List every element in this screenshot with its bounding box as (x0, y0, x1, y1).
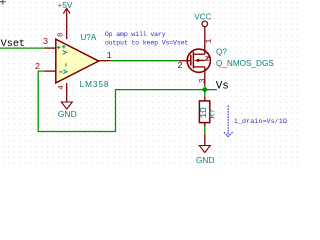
svg-text:1: 1 (205, 39, 214, 44)
svg-text:Q_NMOS_DGS: Q_NMOS_DGS (216, 59, 274, 68)
svg-text:i_drain=Vs/1Ω: i_drain=Vs/1Ω (234, 118, 287, 126)
svg-text:+5V: +5V (58, 1, 73, 10)
svg-text:3: 3 (199, 78, 208, 83)
svg-text:GND: GND (196, 155, 214, 165)
svg-text:2: 2 (177, 61, 182, 71)
svg-text:1Ω: 1Ω (198, 107, 209, 119)
svg-text:output to keep Vs=Vset: output to keep Vs=Vset (105, 39, 189, 46)
svg-text:2: 2 (35, 62, 40, 72)
svg-text:LM358: LM358 (80, 80, 110, 89)
svg-text:4: 4 (58, 85, 66, 90)
svg-text:8: 8 (57, 32, 65, 37)
svg-text:Op amp will vary: Op amp will vary (105, 31, 166, 38)
svg-text:U?A: U?A (80, 33, 96, 42)
svg-text:3: 3 (43, 37, 48, 47)
svg-text:Q?: Q? (216, 48, 227, 57)
svg-text:Vs: Vs (216, 80, 229, 92)
svg-text:1: 1 (106, 51, 111, 61)
svg-text:GND: GND (58, 109, 77, 119)
svg-text:R?: R? (209, 109, 218, 119)
svg-text:VCC: VCC (194, 13, 211, 22)
svg-text:Vset: Vset (1, 39, 25, 50)
